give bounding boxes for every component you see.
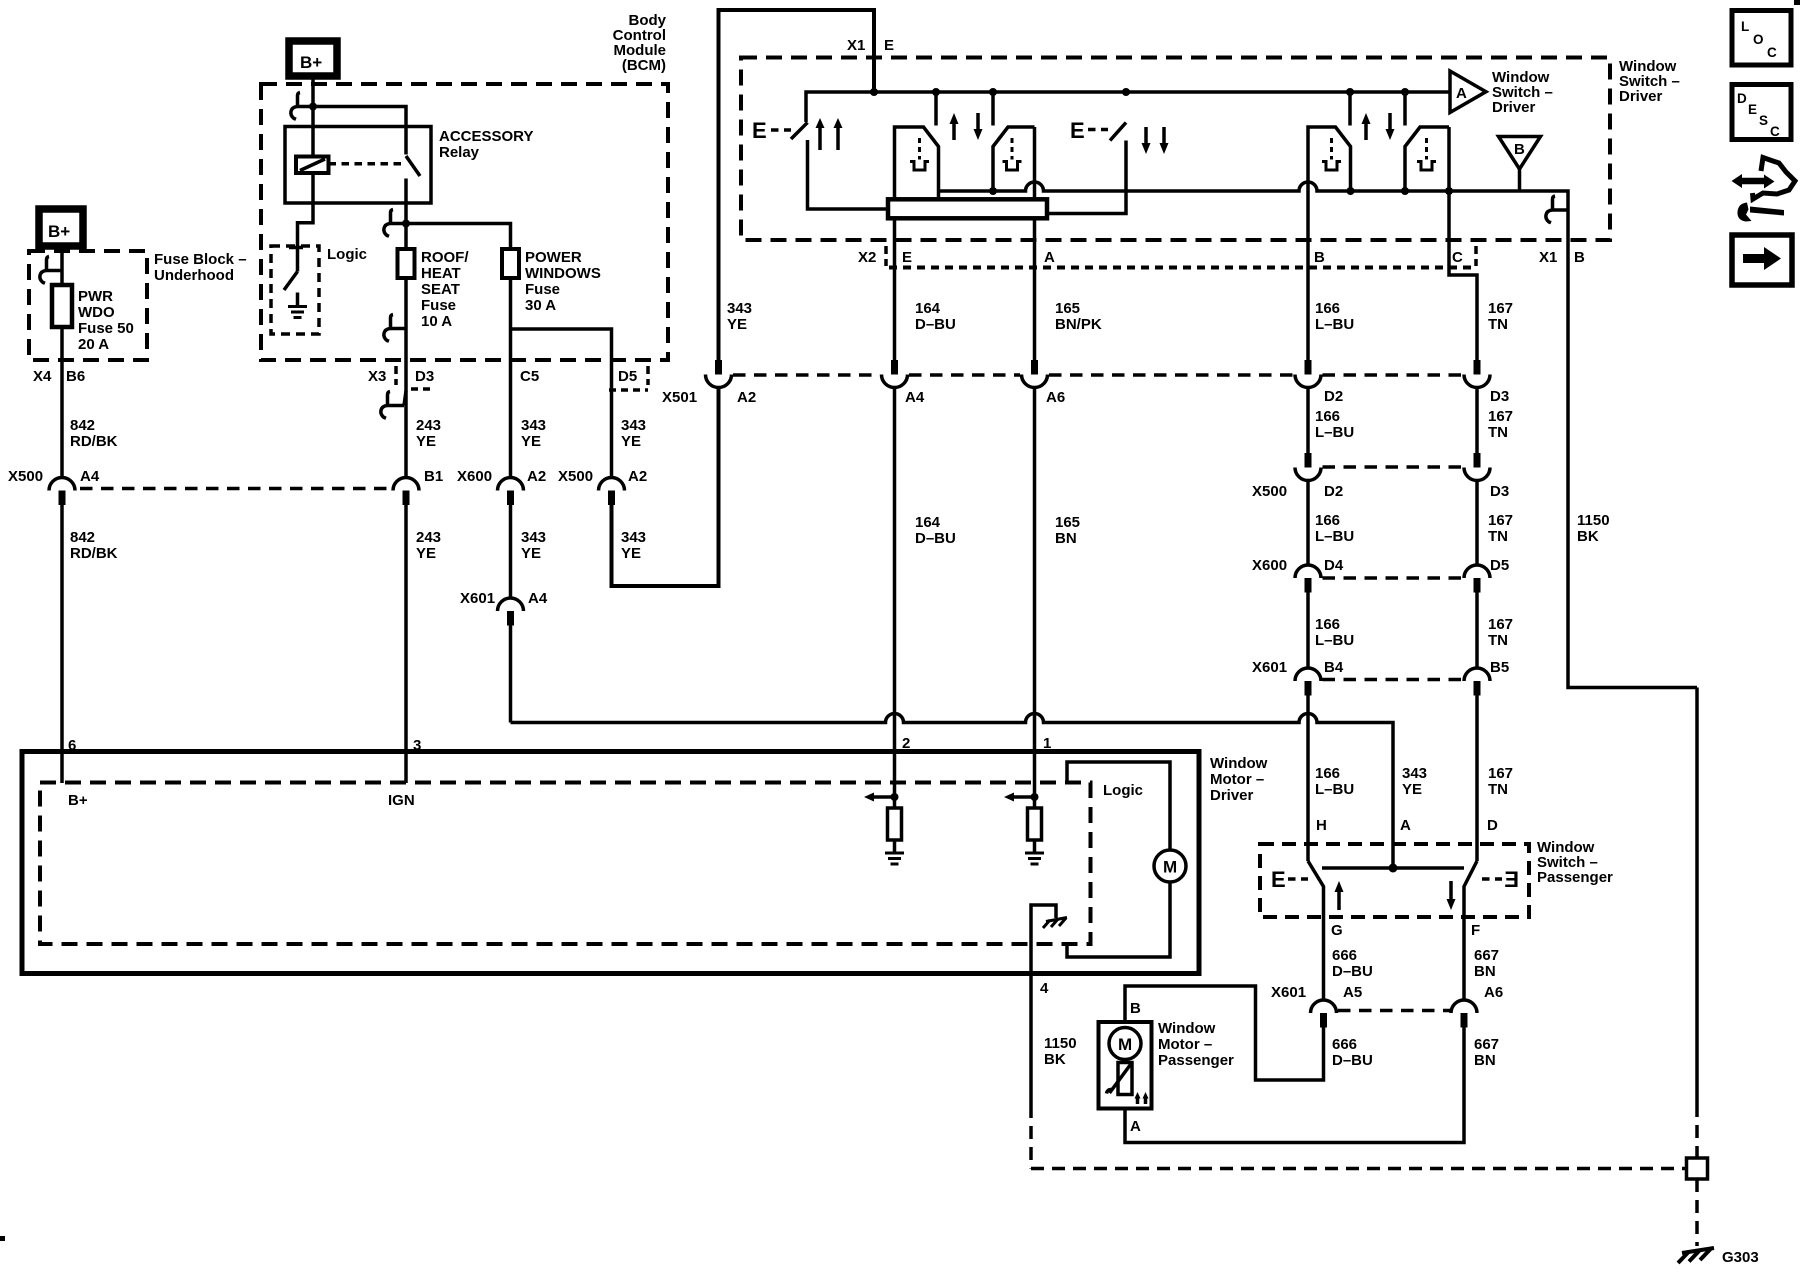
svg-text:X501: X501 bbox=[662, 389, 697, 406]
svg-text:X2: X2 bbox=[858, 249, 876, 266]
svg-text:X600: X600 bbox=[457, 468, 492, 485]
svg-text:B+: B+ bbox=[300, 53, 322, 72]
connector X500 A2 bbox=[599, 478, 625, 491]
ground resistor1 bbox=[885, 852, 904, 855]
svg-text:TN: TN bbox=[1488, 424, 1508, 441]
svg-text:343: 343 bbox=[621, 529, 646, 546]
svg-text:30 A: 30 A bbox=[525, 297, 556, 314]
switch2 E linkage and blade bbox=[1088, 128, 1108, 132]
dotted connector row X2 bbox=[889, 266, 1475, 270]
svg-text:BN: BN bbox=[1055, 530, 1077, 547]
legend LOC box bbox=[1732, 11, 1791, 66]
svg-text:E: E bbox=[1504, 867, 1519, 892]
svg-text:YE: YE bbox=[521, 545, 541, 562]
passenger switch blade H-G bbox=[1308, 861, 1324, 917]
pin2 wire inside bbox=[893, 754, 897, 798]
svg-text:Motor –: Motor – bbox=[1158, 1036, 1212, 1053]
terminal clip hook at X1 B bbox=[1552, 208, 1568, 212]
connector tick D3 small dashes bbox=[411, 387, 431, 391]
contact line to second group bbox=[939, 182, 1698, 688]
relay coil bbox=[296, 157, 329, 174]
connector X601 A4 bbox=[498, 598, 524, 611]
legend hotlink lower wrench bbox=[1737, 203, 1751, 222]
svg-text:X4: X4 bbox=[33, 368, 52, 385]
motor M circle bbox=[1154, 850, 1186, 882]
right 1150 BK wire solid lower bbox=[1695, 688, 1699, 1105]
pin3 wire inside bbox=[404, 754, 408, 784]
svg-text:Driver: Driver bbox=[1619, 88, 1663, 105]
svg-text:A5: A5 bbox=[1343, 984, 1362, 1001]
svg-text:667: 667 bbox=[1474, 947, 1499, 964]
svg-text:X3: X3 bbox=[368, 368, 386, 385]
relay switch lower wire bbox=[404, 179, 408, 224]
wire below ROOF fuse bbox=[404, 278, 408, 360]
pentagon4 right edge / pin C wire bbox=[1449, 127, 1477, 361]
svg-text:166: 166 bbox=[1315, 765, 1340, 782]
svg-text:165: 165 bbox=[1055, 300, 1080, 317]
wire 167 TN to passenger switch pin D bbox=[1475, 696, 1479, 862]
svg-text:B: B bbox=[1514, 141, 1525, 158]
connector X501 D3 bbox=[1474, 360, 1481, 375]
svg-text:Fuse: Fuse bbox=[421, 297, 456, 314]
svg-text:842: 842 bbox=[70, 529, 95, 546]
svg-text:X500: X500 bbox=[1252, 483, 1287, 500]
svg-text:167: 167 bbox=[1488, 408, 1513, 425]
battery feed B+ box (BCM) bbox=[289, 41, 337, 76]
arrow left resistor1 bbox=[874, 795, 895, 799]
wire 343 YE to X601 A4 bbox=[509, 505, 513, 598]
dashed connector line X601 passenger bbox=[1338, 1009, 1450, 1013]
svg-text:Fuse 50: Fuse 50 bbox=[78, 320, 134, 337]
svg-text:A6: A6 bbox=[1046, 389, 1065, 406]
wire 167 TN chain bbox=[1475, 388, 1479, 455]
wire relay coil to BCM logic bbox=[298, 173, 314, 246]
linkage dashes right bbox=[1482, 877, 1502, 881]
contact pentagon 2 bbox=[993, 127, 1035, 191]
wire pin A to motor pin1 bbox=[1033, 388, 1037, 754]
svg-text:A: A bbox=[1456, 85, 1467, 102]
svg-text:TN: TN bbox=[1488, 781, 1508, 798]
svg-text:4: 4 bbox=[1040, 980, 1049, 997]
svg-text:666: 666 bbox=[1332, 1036, 1357, 1053]
node pentagon4 bbox=[1401, 187, 1409, 195]
svg-text:X500: X500 bbox=[558, 468, 593, 485]
svg-text:E: E bbox=[902, 249, 912, 266]
svg-text:H: H bbox=[1316, 817, 1327, 834]
connector tick D5 bbox=[646, 366, 650, 385]
svg-text:RD/BK: RD/BK bbox=[70, 545, 118, 562]
svg-text:A2: A2 bbox=[737, 389, 756, 406]
svg-text:X601: X601 bbox=[1271, 984, 1306, 1001]
svg-text:M: M bbox=[1163, 858, 1177, 877]
connector X601 B4 bbox=[1295, 668, 1321, 681]
connector ticks X2 bbox=[884, 246, 888, 266]
svg-text:B: B bbox=[1130, 1000, 1141, 1017]
svg-text:167: 167 bbox=[1488, 765, 1513, 782]
svg-text:BN: BN bbox=[1474, 1052, 1496, 1069]
pin4 wire below box bbox=[1029, 973, 1033, 1105]
connector X500 D2 bbox=[1305, 453, 1312, 468]
svg-text:YE: YE bbox=[621, 433, 641, 450]
svg-text:X500: X500 bbox=[8, 468, 43, 485]
ground resistor2 bbox=[1025, 852, 1044, 855]
wire B+ into BCM bbox=[311, 76, 315, 156]
svg-text:Motor –: Motor – bbox=[1210, 771, 1264, 788]
common bar rectangle bbox=[888, 199, 1047, 218]
svg-text:166: 166 bbox=[1315, 512, 1340, 529]
svg-text:A: A bbox=[1130, 1118, 1141, 1135]
contact pentagon 3 / pin B wire bbox=[1308, 127, 1351, 361]
node pentagon2 bbox=[989, 187, 997, 195]
svg-text:Fuse Block –: Fuse Block – bbox=[154, 251, 247, 268]
svg-text:343: 343 bbox=[521, 529, 546, 546]
wire 343 YE (C5) down bbox=[509, 360, 513, 477]
svg-text:WINDOWS: WINDOWS bbox=[525, 265, 601, 282]
wire below 30A fuse to C5 and D5 bbox=[509, 278, 513, 360]
svg-text:D4: D4 bbox=[1324, 557, 1344, 574]
svg-text:243: 243 bbox=[416, 529, 441, 546]
resistor1 bbox=[893, 797, 897, 808]
wire pin A lower bbox=[1033, 218, 1037, 361]
wire pin E to motor pin2 bbox=[893, 388, 897, 754]
terminal clip hook below X3 exit bbox=[404, 391, 406, 406]
svg-text:D2: D2 bbox=[1324, 483, 1343, 500]
dashed connector line X601 right bbox=[1323, 678, 1463, 682]
BCM dashed box bbox=[261, 84, 668, 360]
svg-text:C: C bbox=[1767, 45, 1777, 60]
svg-text:B4: B4 bbox=[1324, 659, 1344, 676]
svg-text:667: 667 bbox=[1474, 1036, 1499, 1053]
svg-text:D–BU: D–BU bbox=[915, 316, 956, 333]
svg-text:B+: B+ bbox=[68, 792, 88, 809]
svg-text:167: 167 bbox=[1488, 616, 1513, 633]
legend arrow bbox=[1743, 254, 1764, 263]
svg-text:1150: 1150 bbox=[1044, 1035, 1077, 1052]
svg-text:D3: D3 bbox=[415, 368, 434, 385]
svg-text:Fuse: Fuse bbox=[525, 281, 560, 298]
svg-text:G303: G303 bbox=[1722, 1249, 1759, 1266]
legend DESC box bbox=[1732, 85, 1791, 140]
svg-text:YE: YE bbox=[1402, 781, 1422, 798]
logic switch contact bar bbox=[289, 246, 303, 250]
svg-text:1150: 1150 bbox=[1577, 512, 1610, 529]
contact stub2 bbox=[991, 92, 995, 126]
wire 166 L-BU to passenger switch pin H bbox=[1306, 696, 1310, 862]
svg-text:243: 243 bbox=[416, 417, 441, 434]
svg-text:D–BU: D–BU bbox=[1332, 1052, 1373, 1069]
logic switch wire and blade bbox=[296, 248, 300, 272]
svg-text:D2: D2 bbox=[1324, 388, 1343, 405]
svg-text:Underhood: Underhood bbox=[154, 267, 234, 284]
motor M loop bbox=[1067, 762, 1170, 850]
svg-text:G: G bbox=[1331, 922, 1343, 939]
svg-text:D3: D3 bbox=[1490, 388, 1509, 405]
fuse POWER WINDOWS 30A bbox=[502, 249, 519, 278]
svg-text:M: M bbox=[1118, 1035, 1132, 1054]
terminal clip hook at BCM feed bbox=[297, 105, 313, 109]
node bus stub1 bbox=[932, 88, 940, 96]
svg-text:L–BU: L–BU bbox=[1315, 528, 1354, 545]
svg-text:IGN: IGN bbox=[388, 792, 415, 809]
dashed link X500 A4 to B1 bbox=[80, 487, 394, 491]
connector X501 A2 bbox=[715, 360, 722, 375]
contact stub4 bbox=[1403, 92, 1407, 126]
svg-text:X1: X1 bbox=[847, 37, 865, 54]
svg-text:L–BU: L–BU bbox=[1315, 424, 1354, 441]
svg-text:L–BU: L–BU bbox=[1315, 632, 1354, 649]
svg-text:166: 166 bbox=[1315, 300, 1340, 317]
contact stub3 bbox=[1348, 92, 1352, 126]
dashed connector line X501 bbox=[733, 373, 880, 377]
switch bus bar bbox=[806, 92, 1450, 122]
svg-text:D5: D5 bbox=[618, 368, 637, 385]
linkage dashes left bbox=[1288, 877, 1308, 881]
connector X600 D4 bbox=[1295, 565, 1321, 578]
svg-text:X600: X600 bbox=[1252, 557, 1287, 574]
svg-text:3: 3 bbox=[413, 737, 421, 754]
svg-text:Passenger: Passenger bbox=[1537, 869, 1613, 886]
svg-text:X1: X1 bbox=[1539, 249, 1557, 266]
svg-text:666: 666 bbox=[1332, 947, 1357, 964]
svg-text:WDO: WDO bbox=[78, 304, 115, 321]
dashed connector line X500 right bbox=[1323, 465, 1463, 469]
svg-text:YE: YE bbox=[416, 433, 436, 450]
svg-text:F: F bbox=[1471, 922, 1480, 939]
legend arrow box bbox=[1732, 235, 1792, 285]
svg-text:ACCESSORY: ACCESSORY bbox=[439, 128, 533, 145]
wire to ROOF fuse bbox=[404, 224, 408, 250]
svg-text:6: 6 bbox=[68, 737, 76, 754]
wire pin E lower bbox=[893, 218, 897, 361]
svg-text:A2: A2 bbox=[628, 468, 647, 485]
svg-text:E: E bbox=[1271, 867, 1286, 892]
wire to POWER WINDOWS fuse bbox=[406, 224, 511, 250]
legend hotlink double arrow bbox=[1741, 178, 1765, 185]
node bus stub4 bbox=[1401, 88, 1409, 96]
svg-text:E: E bbox=[752, 118, 767, 143]
wire to relay switch bbox=[313, 107, 406, 155]
svg-text:343: 343 bbox=[521, 417, 546, 434]
passenger switch blade D-F bbox=[1464, 861, 1477, 917]
up arrow between stubs bbox=[952, 122, 956, 140]
svg-text:D: D bbox=[1487, 817, 1498, 834]
wire 666 D-BU loop to motor B bbox=[1125, 986, 1324, 1080]
node pin C bbox=[1445, 187, 1453, 195]
marker triangle B bbox=[1499, 137, 1541, 170]
wire 842 RD/BK to window motor driver pin 6 bbox=[60, 505, 64, 754]
wire 343 YE long run to passenger switch pin A bbox=[509, 626, 513, 723]
svg-text:343: 343 bbox=[727, 300, 752, 317]
svg-text:A4: A4 bbox=[905, 389, 925, 406]
wire 343 YE loop up to window switch driver bbox=[612, 388, 719, 586]
svg-text:B: B bbox=[1574, 249, 1585, 266]
svg-text:E: E bbox=[1748, 102, 1757, 117]
svg-text:BN: BN bbox=[1474, 963, 1496, 980]
svg-text:10 A: 10 A bbox=[421, 313, 452, 330]
svg-text:YE: YE bbox=[416, 545, 436, 562]
svg-text:A2: A2 bbox=[527, 468, 546, 485]
wire 343 YE (D5) down bbox=[610, 360, 614, 477]
up arrows double bbox=[818, 126, 822, 150]
node resistor1 bbox=[891, 793, 899, 801]
wire 243 YE to motor driver pin 3 bbox=[404, 505, 408, 754]
svg-text:D5: D5 bbox=[1490, 557, 1509, 574]
junction node below relay bbox=[402, 220, 410, 228]
svg-text:S: S bbox=[1759, 113, 1768, 128]
svg-text:166: 166 bbox=[1315, 616, 1340, 633]
junction node at BCM feed bbox=[309, 103, 317, 111]
connector X500 D3 bbox=[1474, 453, 1481, 468]
svg-text:164: 164 bbox=[915, 514, 941, 531]
svg-text:C: C bbox=[1452, 249, 1463, 266]
svg-text:Logic: Logic bbox=[1103, 782, 1143, 799]
terminal clip hook on fuse wire bbox=[46, 269, 62, 273]
wire B+ to fuse PWR WDO bbox=[60, 249, 64, 477]
connector X601 B5 bbox=[1464, 668, 1490, 681]
connector B1 bbox=[393, 478, 419, 491]
svg-text:POWER: POWER bbox=[525, 249, 582, 266]
wire motor A to 667 BN bbox=[1125, 1028, 1464, 1143]
ground G303 bbox=[1682, 1248, 1714, 1253]
svg-text:TN: TN bbox=[1488, 528, 1508, 545]
svg-text:Window: Window bbox=[1158, 1020, 1216, 1037]
svg-text:YE: YE bbox=[621, 545, 641, 562]
svg-text:343: 343 bbox=[621, 417, 646, 434]
dashed ground run to G303 bbox=[1031, 1167, 1686, 1171]
svg-text:A6: A6 bbox=[1484, 984, 1503, 1001]
accessory relay box bbox=[285, 127, 431, 204]
up arrow group2 bbox=[1364, 122, 1368, 140]
svg-text:PWR: PWR bbox=[78, 288, 113, 305]
switch1 blade and linkage E bbox=[791, 123, 808, 140]
fuse ROOF/HEAT SEAT 10A bbox=[398, 249, 415, 278]
svg-text:L–BU: L–BU bbox=[1315, 316, 1354, 333]
connector X601 A5 bbox=[1311, 1000, 1337, 1013]
window motor passenger box bbox=[1099, 1022, 1152, 1109]
logic ground bbox=[296, 293, 300, 307]
svg-text:D–BU: D–BU bbox=[1332, 963, 1373, 980]
contact pentagon 4 bbox=[1405, 127, 1449, 191]
connector X501 D2 bbox=[1305, 360, 1312, 375]
svg-text:TN: TN bbox=[1488, 632, 1508, 649]
node pentagon3 bbox=[1347, 187, 1355, 195]
svg-text:B1: B1 bbox=[424, 468, 443, 485]
svg-text:BK: BK bbox=[1577, 528, 1599, 545]
connector X501 A6 bbox=[1031, 360, 1038, 375]
svg-text:842: 842 bbox=[70, 417, 95, 434]
switch2 lower wire to bar bbox=[1047, 141, 1126, 214]
svg-text:Driver: Driver bbox=[1210, 787, 1254, 804]
connector tick X3 bbox=[394, 366, 398, 385]
svg-text:(BCM): (BCM) bbox=[622, 57, 666, 74]
motor passenger M circle bbox=[1109, 1028, 1141, 1060]
svg-text:RD/BK: RD/BK bbox=[70, 433, 118, 450]
motor passenger thermistor bbox=[1123, 1060, 1127, 1063]
window motor driver inner dashed box bbox=[40, 783, 1091, 945]
pentagon2 right edge / pin A wire upper bbox=[1033, 127, 1037, 199]
svg-text:Driver: Driver bbox=[1492, 99, 1536, 116]
svg-text:ROOF/: ROOF/ bbox=[421, 249, 469, 266]
fuse block underhood dashed box bbox=[29, 251, 147, 360]
svg-text:C5: C5 bbox=[520, 368, 539, 385]
svg-text:C: C bbox=[1770, 124, 1780, 139]
svg-text:E: E bbox=[884, 37, 894, 54]
node bus E feed bbox=[870, 88, 878, 96]
svg-text:A4: A4 bbox=[528, 590, 548, 607]
resistor2 bbox=[1033, 797, 1037, 808]
svg-text:L–BU: L–BU bbox=[1315, 781, 1354, 798]
window motor driver outer box bbox=[22, 752, 1199, 974]
BCM logic dashed box bbox=[271, 246, 319, 334]
down arrows double bbox=[1144, 127, 1148, 145]
node bus switch2 bbox=[1122, 88, 1130, 96]
svg-text:O: O bbox=[1753, 32, 1764, 47]
contact stub1 bbox=[934, 92, 938, 126]
dashed connector line X600 right bbox=[1323, 576, 1463, 580]
svg-text:BK: BK bbox=[1044, 1051, 1066, 1068]
svg-text:166: 166 bbox=[1315, 408, 1340, 425]
connector X501 A4 bbox=[891, 360, 898, 375]
svg-text:D3: D3 bbox=[1490, 483, 1509, 500]
window switch driver dashed box bbox=[741, 58, 1610, 241]
svg-text:343: 343 bbox=[1402, 765, 1427, 782]
up arrow passenger bbox=[1337, 890, 1341, 910]
svg-text:B+: B+ bbox=[48, 222, 70, 241]
pin6 wire inside bbox=[60, 754, 64, 784]
svg-text:L: L bbox=[1741, 19, 1749, 34]
svg-text:E: E bbox=[1070, 118, 1085, 143]
svg-text:YE: YE bbox=[727, 316, 747, 333]
node passenger bar bbox=[1389, 864, 1398, 873]
connector X600 D5 bbox=[1464, 565, 1490, 578]
wire pin F to X601 A6 bbox=[1462, 917, 1466, 1000]
wire 243 YE down to B1 bbox=[404, 360, 408, 477]
relay switch blade bbox=[406, 156, 420, 176]
svg-text:Relay: Relay bbox=[439, 144, 480, 161]
pin1 wire inside bbox=[1033, 754, 1037, 798]
arrow left resistor2 bbox=[1014, 795, 1035, 799]
svg-text:A: A bbox=[1044, 249, 1055, 266]
svg-text:167: 167 bbox=[1488, 512, 1513, 529]
dashed ground drop bbox=[1695, 1179, 1699, 1246]
wire 166 L-BU chain bbox=[1306, 388, 1310, 455]
svg-text:Window: Window bbox=[1210, 755, 1268, 772]
svg-text:SEAT: SEAT bbox=[421, 281, 460, 298]
svg-text:2: 2 bbox=[902, 735, 910, 752]
svg-text:D: D bbox=[1737, 91, 1747, 106]
down arrow group2 bbox=[1388, 113, 1392, 131]
svg-text:BN/PK: BN/PK bbox=[1055, 316, 1102, 333]
svg-text:165: 165 bbox=[1055, 514, 1080, 531]
svg-text:X601: X601 bbox=[1252, 659, 1287, 676]
svg-text:Logic: Logic bbox=[327, 246, 367, 263]
small up arrows thermistor bbox=[1136, 1098, 1140, 1104]
svg-text:1: 1 bbox=[1043, 735, 1051, 752]
svg-text:167: 167 bbox=[1488, 300, 1513, 317]
svg-text:HEAT: HEAT bbox=[421, 265, 461, 282]
connector X601 A6 bbox=[1451, 1000, 1477, 1013]
corner tick top right bbox=[1794, 0, 1800, 5]
chassis ground symbol inside logic bbox=[1031, 905, 1056, 973]
connector tick D5 bottom bbox=[609, 388, 648, 392]
node bus stub3 bbox=[1346, 88, 1354, 96]
passenger switch common bar bbox=[1322, 866, 1464, 870]
splice square bbox=[1687, 1158, 1708, 1179]
battery feed B+ box (left) bbox=[39, 209, 83, 246]
svg-text:164: 164 bbox=[915, 300, 941, 317]
connector ticks C bbox=[1474, 246, 1478, 266]
corner tick bottom left bbox=[0, 1236, 5, 1241]
